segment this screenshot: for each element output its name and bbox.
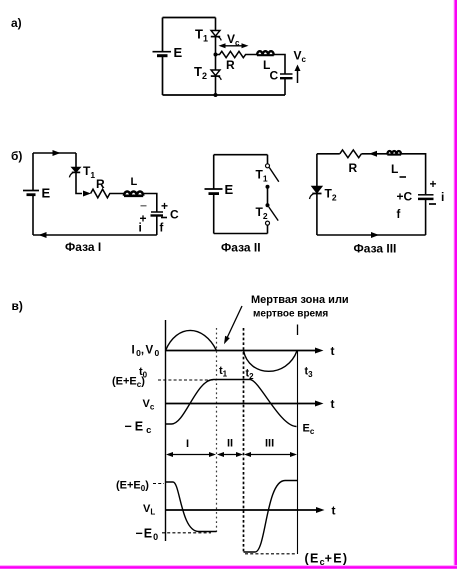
- svg-text:Фаза I: Фаза I: [65, 240, 101, 254]
- gridline: (E+Ec) dashed level: [158, 379, 217, 381]
- arrow: phase III top current (left): [369, 151, 377, 157]
- battery E (phase I): [23, 191, 39, 195]
- svg-text:Vc: Vc: [227, 32, 240, 48]
- gridline: (E+E0) dashed stub: [153, 483, 164, 485]
- gridline: -E0 dashed level: [162, 532, 211, 534]
- svg-text:VL: VL: [143, 503, 155, 517]
- svg-text:+: +: [161, 199, 168, 213]
- wire: phase I left wire upper: [32, 153, 34, 190]
- svg-text:Мертвая зона или: Мертвая зона или: [251, 294, 349, 306]
- polarity sign minus (phase III, above +C): [400, 176, 407, 178]
- svg-text:(Ec+E): (Ec+E): [305, 552, 349, 568]
- svg-text:t: t: [331, 344, 335, 358]
- svg-text:Ec: Ec: [303, 423, 315, 437]
- svg-text:−E0: −E0: [136, 527, 159, 543]
- inductor L (phase I): [124, 191, 143, 195]
- capacitor C (circuit a): [280, 74, 293, 78]
- polarity sign minus (phase I, below cap right): [161, 217, 167, 219]
- wire: circuit a below capacitor: [284, 79, 286, 96]
- svg-text:I: I: [186, 438, 189, 450]
- wire: phase III left wire upper: [316, 154, 318, 186]
- svg-text:R: R: [226, 58, 235, 72]
- arrow: Vc output direction (up): [295, 65, 301, 84]
- node: junction of R branch and thyristor branch: [214, 53, 218, 57]
- thyristor T1 (circuit a): [211, 31, 221, 41]
- svg-text:а): а): [11, 16, 22, 30]
- switch T1 blade (open, phase II): [269, 168, 279, 182]
- wire: phase I top wire: [33, 152, 76, 154]
- capacitor C (phase I): [151, 212, 164, 216]
- svg-text:T1: T1: [195, 27, 208, 44]
- svg-text:мертвое время: мертвое время: [253, 309, 328, 320]
- svg-text:(E+Ec): (E+Ec): [112, 376, 145, 390]
- svg-text:L: L: [131, 176, 138, 188]
- node: bottom tee junction: [214, 93, 218, 97]
- inductor L (circuit a): [257, 51, 274, 55]
- svg-text:t1: t1: [219, 365, 228, 379]
- arrow: interval I double-headed span: [166, 452, 216, 457]
- svg-text:i: i: [139, 221, 142, 235]
- wire: circuit a left wire upper: [162, 18, 164, 52]
- svg-text:в): в): [12, 299, 23, 313]
- gridline: t2 dashed vertical: [243, 328, 245, 554]
- svg-text:E: E: [225, 182, 234, 197]
- wire: phase III left wire lower: [316, 194, 318, 235]
- svg-text:I0,V0: I0,V0: [132, 345, 161, 359]
- axis: vertical axis (graphs v): [165, 320, 167, 541]
- arrow: interval III double-headed span: [244, 452, 297, 457]
- wire: phase I bottom wire: [33, 234, 157, 236]
- resistor R (circuit a): [216, 51, 258, 57]
- wire: phase III top wire middle: [361, 153, 387, 155]
- wire: phase I from top corner down to T1: [75, 153, 77, 168]
- arrow: phase I top current (right): [53, 150, 61, 156]
- switch T2 blade (open, phase II): [269, 207, 278, 221]
- polarity sign minus (phase I, left of cap): [141, 205, 147, 207]
- svg-text:C: C: [170, 208, 179, 222]
- svg-text:(E+E0): (E+E0): [116, 480, 149, 494]
- curve: graph 1 negative dip (phase III): [244, 351, 298, 372]
- resistor R (phase III): [340, 150, 362, 158]
- svg-text:Фаза III: Фаза III: [354, 242, 397, 256]
- svg-text:б): б): [11, 149, 22, 163]
- svg-text:Vc: Vc: [143, 398, 155, 412]
- wire: circuit a bottom wire: [163, 94, 286, 96]
- svg-text:t3: t3: [305, 366, 314, 380]
- arrow: phase I bottom current (left): [39, 232, 47, 238]
- wire: circuit a from L to right corner, down to capacitor: [274, 55, 285, 75]
- wire: phase III right wire below capacitor: [425, 199, 427, 235]
- wire: circuit a middle branch: [215, 18, 217, 96]
- annotation: Мертвая зона или мертвое время: [251, 294, 349, 320]
- wire: circuit a top wire: [163, 17, 216, 19]
- axis: t-axis of graph 1 (Io,Vo): [166, 344, 335, 358]
- wire: phase I below capacitor: [156, 216, 158, 235]
- gridline: (Ec+E) dashed level: [245, 553, 297, 555]
- thyristor T2 (phase III): [310, 186, 323, 199]
- svg-text:T1: T1: [256, 168, 268, 184]
- svg-text:+: +: [430, 177, 437, 191]
- arrow: interval II double-headed span: [217, 452, 243, 457]
- svg-text:t: t: [331, 397, 335, 411]
- switch T2 open contact (phase II): [266, 221, 270, 225]
- switch T1 open (phase II): fixed contact: [266, 164, 270, 168]
- battery E (phase II): [205, 189, 223, 194]
- capacitor C (phase III): [418, 195, 434, 199]
- svg-text:II: II: [227, 438, 233, 450]
- curve: graph 3 VL phase I segment: [166, 482, 217, 532]
- svg-text:C: C: [270, 69, 279, 83]
- svg-text:T2: T2: [194, 64, 207, 81]
- wire: phase II right wire lower: [267, 225, 269, 233]
- wire: phase III bottom wire: [317, 234, 426, 236]
- wire: phase III top wire left part: [317, 153, 340, 155]
- svg-text:T2: T2: [325, 187, 337, 203]
- voltage arrow Vc across R (double-headed): [219, 43, 249, 48]
- decorative magenta page border right: [454, 0, 457, 569]
- svg-text:E: E: [174, 45, 183, 60]
- curve: graph 2 capacitor voltage Vc: [166, 380, 297, 427]
- wire: circuit a left wire lower: [162, 57, 164, 96]
- svg-text:E: E: [42, 186, 51, 201]
- svg-text:f: f: [160, 223, 164, 235]
- wire: phase II left wire lower: [213, 194, 215, 233]
- wire: phase I from T1 down and corner to R branch: [76, 173, 82, 194]
- polarity sign minus (phase III, right of cap bottom): [429, 203, 436, 205]
- svg-text:Фаза II: Фаза II: [221, 241, 261, 255]
- svg-text:+C: +C: [397, 190, 413, 204]
- arrow: phase III bottom current (right): [371, 232, 379, 238]
- wire: phase II middle segment between switches: [267, 187, 269, 205]
- svg-text:T1: T1: [83, 164, 95, 180]
- gridline: t3 vertical line with top tick: [297, 325, 299, 555]
- decorative magenta page border bottom: [0, 565, 457, 569]
- wire: phase I from L to corner, down to capacitor: [143, 194, 157, 212]
- arrow: phase I branch current (right): [83, 191, 91, 197]
- svg-text:T2: T2: [256, 205, 268, 221]
- battery E (circuit a): [153, 52, 172, 56]
- wire: phase II right wire upper: [267, 155, 269, 164]
- svg-text:−Ec: −Ec: [125, 420, 152, 437]
- svg-text:Vc: Vc: [294, 49, 307, 65]
- node: switch T2 pivot dot (phase II): [266, 203, 270, 207]
- axis: t-axis of graph 3 (VL): [166, 504, 336, 518]
- axis: t-axis of graph 2 (Vc): [166, 397, 335, 411]
- resistor R (phase I): [91, 189, 124, 198]
- inductor L (phase III): [387, 151, 401, 155]
- svg-text:f: f: [397, 209, 401, 221]
- wire: phase II bottom wire: [214, 233, 268, 235]
- svg-text:R: R: [96, 177, 105, 191]
- svg-text:t: t: [332, 504, 336, 518]
- gridline: t1 dashed vertical: [216, 328, 218, 532]
- svg-text:III: III: [265, 438, 274, 450]
- thyristor T1 (phase I): [69, 167, 80, 177]
- thyristor T2 (circuit a): [211, 70, 221, 80]
- svg-text:i: i: [441, 190, 444, 204]
- svg-text:L: L: [391, 162, 398, 176]
- wire: phase I left wire lower: [32, 196, 34, 236]
- wire: phase II rectangle top: [214, 154, 268, 156]
- arrow: annotation pointer to dead zone: [224, 306, 242, 344]
- svg-text:R: R: [349, 161, 358, 175]
- wire: phase II left wire upper: [213, 155, 215, 189]
- curve: graph 3 VL phase III segment: [244, 481, 298, 553]
- node: switch T1 pivot dot (phase II): [266, 185, 270, 189]
- curve: graph 1 positive half-sine (phase I): [166, 330, 217, 350]
- wire: phase III top wire right and right wire down to capacitor: [401, 154, 426, 195]
